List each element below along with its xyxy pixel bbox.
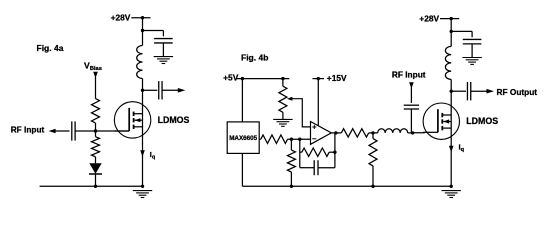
node drain output junction dot: [450, 90, 453, 93]
node drain output junction dot: [141, 89, 144, 92]
svg-text:Fig. 4a: Fig. 4a: [37, 43, 64, 53]
inductor L2 gate feed: [378, 129, 408, 133]
wire coil to gate node: [408, 132, 413, 134]
transistor Q1 LDMOS (Fig 4a) channel segments: [133, 112, 135, 116]
svg-text:RF Input: RF Input: [392, 70, 426, 80]
V_Bias arrow down: [93, 72, 98, 79]
Iq arrow (Fig 4b): [449, 146, 454, 153]
resistor R2 bias lower: [92, 137, 100, 157]
node feedback resistor right dot: [333, 151, 336, 154]
wire RF input to capacitor: [55, 130, 69, 132]
ground rail Fig 4a: [40, 185, 143, 187]
wire to bypass capacitor: [143, 30, 164, 32]
bypass capacitor: [154, 38, 173, 40]
node output dot: [334, 131, 337, 134]
wire R4 to inverting input: [288, 138, 311, 140]
wire V_Bias to resistor R1: [95, 77, 97, 99]
wire RF input to capacitor C3: [410, 87, 412, 103]
potentiometer wiper arrow: [287, 97, 293, 101]
node pot top junction dot: [281, 77, 284, 80]
op-amp + input sign: [312, 126, 316, 128]
wire feedback left vertical: [299, 139, 301, 168]
wire +28V rail down to inductor: [450, 19, 452, 47]
resistor R5 to ground: [290, 139, 292, 150]
wire inductor to drain: [450, 79, 452, 186]
wire feedback cap left: [300, 167, 315, 169]
diode D1: [89, 163, 101, 173]
RF Input arrow: [49, 129, 56, 134]
transistor Q1 LDMOS (Fig 4a) body circle: [114, 102, 150, 138]
wire op-amp output: [331, 132, 341, 134]
wire feedback right vertical: [334, 133, 336, 168]
wire R2 to diode D1: [95, 157, 97, 164]
inductor RF choke: [137, 46, 143, 79]
node RF input junction dot: [411, 131, 414, 134]
temperature sensor MAX6605 box: [227, 122, 259, 153]
wire capacitor to ground: [471, 44, 473, 57]
ground symbol Fig 4b: [442, 190, 461, 192]
RF out arrow: [487, 89, 495, 94]
bypass capacitor: [463, 38, 482, 40]
node +28V junction dot: [141, 16, 144, 19]
svg-text:MAX6605: MAX6605: [229, 135, 257, 142]
transistor Q2 LDMOS (Fig 4b) body stub with arrow: [443, 121, 451, 123]
transistor Q2 LDMOS (Fig 4b) body circle: [423, 103, 459, 139]
resistor R4 sensor output: [261, 135, 288, 143]
node bypass branch dot: [450, 30, 453, 33]
resistor R1 bias upper: [92, 99, 100, 123]
RF out arrow: [178, 88, 186, 93]
transistor Q2 LDMOS (Fig 4b) channel segments: [441, 113, 443, 117]
wire inductor to drain: [142, 79, 144, 187]
resistor R8 to ground: [372, 133, 374, 139]
ground symbol Fig 4a: [133, 190, 152, 192]
+5V rail: [237, 78, 290, 80]
coupling capacitor RF out: [158, 81, 160, 99]
node R5 junction dot: [290, 138, 293, 141]
svg-text:Fig. 4b: Fig. 4b: [241, 53, 268, 63]
wire to bypass capacitor: [451, 30, 472, 32]
transistor Q1 LDMOS (Fig 4a) source stub: [134, 126, 143, 128]
wire +5V to MAX6605: [241, 79, 243, 122]
node +5V junction dot: [241, 77, 244, 80]
input coupling capacitor C3 (Fig 4b): [404, 104, 419, 106]
wire +28V rail down to inductor: [142, 18, 144, 46]
svg-text:RF Output: RF Output: [497, 87, 538, 97]
node ground junction at diode: [94, 185, 97, 188]
svg-text:+5V: +5V: [223, 73, 239, 83]
transistor Q2 LDMOS (Fig 4b) gate: [423, 131, 438, 133]
svg-text:Iq: Iq: [150, 150, 155, 161]
node bypass branch dot: [141, 29, 144, 32]
wire wiper to op-amp + input: [292, 99, 310, 127]
svg-text:VBias: VBias: [84, 60, 102, 72]
svg-text:Iq: Iq: [459, 143, 464, 154]
wire drain to coupling capacitor: [143, 89, 158, 91]
ground below bypass capacitor: [154, 56, 173, 58]
wire coupling capacitor to output arrow: [162, 89, 178, 91]
capacitor C2 feedback: [313, 160, 315, 175]
transistor Q2 LDMOS (Fig 4b) drain stub: [442, 114, 451, 116]
wire pot to ground: [282, 112, 284, 119]
resistor R7 gate series: [341, 129, 368, 137]
node feedback junction dot: [298, 138, 301, 141]
wire drain to coupling capacitor: [451, 90, 466, 92]
wire capacitor to gate: [75, 130, 129, 132]
wire feedback cap right: [318, 167, 335, 169]
ground rail Fig 4b: [242, 185, 451, 187]
input coupling capacitor C1: [71, 121, 73, 140]
wire coupling capacitor to output arrow: [471, 90, 487, 92]
wire +15V to op-amp: [317, 79, 319, 126]
+15V supply tick: [313, 78, 325, 80]
potentiometer drop wire: [282, 79, 284, 87]
inductor RF choke: [445, 46, 451, 79]
wire MAX6605 to ground rail: [241, 153, 243, 186]
wire gate node to resistor R2: [95, 131, 97, 137]
coupling capacitor RF out: [466, 82, 468, 100]
svg-text:+28V: +28V: [419, 14, 439, 24]
wire capacitor to ground: [162, 43, 164, 56]
node R8 ground dot: [371, 185, 374, 188]
node +28V junction dot: [450, 17, 453, 20]
wire R1 to gate node: [95, 123, 97, 131]
wire C3 to gate node: [410, 109, 412, 133]
node ground junction at source: [141, 185, 144, 188]
node R8 junction dot: [371, 131, 374, 134]
wire R7 to coil: [369, 132, 378, 134]
transistor Q1 LDMOS (Fig 4a) drain stub: [134, 113, 143, 115]
svg-text:RF Input: RF Input: [11, 125, 45, 135]
+28V supply lead: [440, 18, 459, 20]
transistor Q1 LDMOS (Fig 4a) gate: [115, 130, 130, 132]
ground below potentiometer: [273, 118, 292, 120]
+28V supply lead: [131, 17, 150, 19]
svg-text:LDMOS: LDMOS: [158, 115, 190, 125]
svg-text:LDMOS: LDMOS: [466, 116, 498, 126]
op-amp - input sign: [312, 138, 316, 140]
wire diode to ground rail: [95, 174, 97, 186]
node +15V dot: [317, 77, 320, 80]
ground below bypass capacitor: [462, 57, 481, 59]
svg-text:+28V: +28V: [111, 13, 131, 23]
svg-text:+15V: +15V: [327, 73, 347, 83]
op-amp U2: [311, 122, 332, 145]
Iq arrow (Fig 4a): [140, 150, 145, 157]
potentiometer R3: [279, 86, 287, 112]
node ground junction at source (Fig 4b): [450, 185, 453, 188]
transistor Q2 LDMOS (Fig 4b) source stub: [442, 127, 451, 129]
node R5 ground dot: [290, 185, 293, 188]
resistor R6 feedback: [300, 151, 302, 153]
RF Input arrow down (Fig 4b): [409, 82, 414, 89]
transistor Q1 LDMOS (Fig 4a) body stub with arrow: [135, 119, 143, 121]
node gate bias junction dot: [94, 129, 97, 132]
